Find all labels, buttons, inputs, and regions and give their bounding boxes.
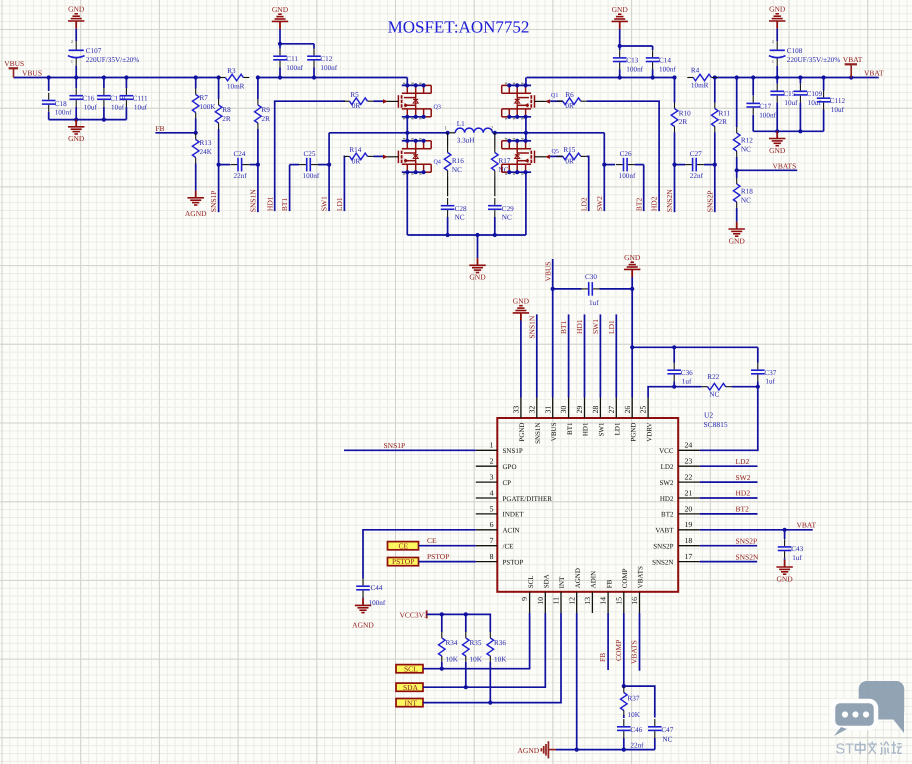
svg-text:10K: 10K [470, 655, 483, 663]
svg-text:SNS1P: SNS1P [503, 447, 523, 455]
wire pin28 SW1 [599, 314, 601, 397]
svg-text:2: 2 [490, 457, 494, 466]
svg-text:SDA: SDA [543, 574, 551, 588]
resistor R37 [621, 686, 641, 719]
svg-text:L1: L1 [457, 120, 465, 128]
wire VDRV rail [648, 387, 758, 398]
wire SDA net [423, 613, 545, 687]
capacitor C46 [617, 719, 644, 750]
svg-text:CE: CE [427, 536, 437, 545]
wire Q4 source down [406, 172, 408, 235]
svg-text:15: 15 [614, 597, 623, 605]
svg-text:C108: C108 [787, 47, 803, 55]
resistor R35 [463, 614, 483, 687]
wire VCC net [700, 387, 758, 451]
resistor R10 [671, 78, 691, 165]
inductor L1 [445, 120, 495, 144]
wire pin29 HD1 [584, 314, 586, 397]
wire pin27 LD1 [615, 314, 617, 397]
svg-text:BT1: BT1 [280, 198, 289, 212]
svg-text:LD1: LD1 [607, 320, 616, 334]
wire BT2 vertical [643, 165, 645, 212]
svg-text:10mR: 10mR [227, 83, 245, 91]
resistor R14 [344, 146, 374, 165]
svg-text:SNS2N: SNS2N [665, 189, 674, 213]
wire R15 to LD2 [587, 156, 589, 211]
wire LD2 stub [700, 465, 758, 467]
junction dots VCC3V3 rail [440, 612, 468, 616]
svg-text:AGND: AGND [574, 568, 582, 588]
resistor R9 [255, 78, 271, 165]
svg-text:HD2: HD2 [650, 196, 659, 211]
U2 designator [704, 411, 728, 429]
power GND above pin33 [513, 296, 530, 320]
svg-text:R15: R15 [563, 146, 575, 154]
wire R14 to Q4 gate [374, 155, 384, 157]
svg-text:VBUS: VBUS [543, 261, 552, 281]
wire SNS2P vertical [714, 165, 716, 213]
junction dot C13 top [618, 44, 622, 48]
svg-text:NC: NC [662, 736, 672, 744]
svg-text:C107: C107 [86, 47, 102, 55]
svg-text:22nf: 22nf [690, 172, 704, 180]
svg-text:7: 7 [490, 536, 494, 545]
svg-text:VBAT: VBAT [864, 69, 884, 78]
U2 bottom pins 9-16 [520, 566, 645, 613]
svg-text:100nf: 100nf [55, 109, 72, 117]
wire BT1 vertical [289, 165, 291, 212]
net label SNS2N pin17 [736, 552, 760, 561]
net label BT2 [634, 198, 643, 212]
capacitor C14 [646, 46, 677, 78]
net label BT1 [280, 198, 289, 212]
svg-text:8: 8 [490, 552, 494, 561]
net label COMP below IC [614, 640, 623, 661]
capacitor C30 [553, 273, 633, 307]
svg-text:10uf: 10uf [111, 103, 125, 111]
svg-text:COMP: COMP [614, 640, 623, 661]
net label SW1 above IC [591, 319, 600, 334]
resistor R18 [733, 170, 753, 222]
op-amp U2 body [497, 418, 678, 592]
svg-text:VBAT: VBAT [797, 520, 817, 529]
svg-text:100nf: 100nf [659, 65, 676, 73]
svg-text:C14: C14 [659, 56, 671, 64]
resistor R22 [702, 373, 732, 398]
svg-text:VBUS: VBUS [22, 69, 42, 78]
svg-text:SW1: SW1 [591, 319, 600, 334]
wire FB stub [155, 132, 195, 134]
svg-text:CE: CE [399, 541, 409, 550]
svg-text:SNS1P: SNS1P [384, 441, 406, 450]
svg-text:NC: NC [709, 390, 719, 398]
wire Q3 source to SW [406, 117, 408, 133]
svg-text:0R: 0R [352, 157, 361, 165]
svg-text:SW2: SW2 [660, 479, 675, 487]
svg-text:GND: GND [469, 273, 486, 282]
wire pin16 VBATS net [639, 613, 641, 671]
capacitor C109 [794, 78, 823, 132]
svg-text:R14: R14 [349, 146, 361, 154]
resistor R15 [550, 146, 587, 165]
wire pin15 COMP net [623, 613, 625, 686]
node VBAT junction [783, 528, 787, 532]
svg-text:0R: 0R [565, 102, 574, 110]
svg-text:SW1: SW1 [320, 196, 329, 211]
svg-text:10mR: 10mR [691, 82, 709, 90]
junction dots right cap rail [775, 129, 802, 133]
transistor Q4 [383, 138, 441, 175]
svg-text:PSTOP: PSTOP [503, 558, 524, 566]
svg-text:R11: R11 [719, 110, 731, 118]
wire pin32 SNS1N [536, 314, 538, 397]
transistor Q3 [383, 83, 441, 120]
capacitor C44 [356, 579, 386, 607]
resistor R4 [687, 66, 717, 89]
svg-text:R34: R34 [446, 639, 458, 647]
svg-text:CP: CP [503, 479, 512, 487]
svg-text:1uf: 1uf [682, 377, 692, 385]
wire Q5 source down [525, 172, 527, 235]
capacitor C112 [817, 78, 846, 132]
power GND above C11 [272, 5, 289, 29]
wire SNS2N stub [700, 561, 757, 563]
svg-text:2R: 2R [719, 118, 728, 126]
svg-text:10K: 10K [446, 655, 459, 663]
wire SNS1P to pin1 [344, 449, 476, 451]
svg-text:1uf: 1uf [765, 377, 775, 385]
transistor Q1 [502, 83, 559, 120]
wire bus to Q1 drain [525, 78, 527, 86]
wire SNS1P vertical [218, 165, 220, 213]
svg-text:C24: C24 [234, 150, 246, 158]
wire SW1 vertical [328, 133, 330, 211]
svg-text:18: 18 [685, 536, 693, 545]
svg-text:HD1: HD1 [575, 319, 584, 334]
svg-text:R5: R5 [350, 91, 359, 99]
svg-text:BT1: BT1 [566, 422, 574, 435]
svg-text:BT2: BT2 [661, 511, 674, 519]
net label LD2 [579, 197, 588, 211]
svg-text:220UF/35V/±20%: 220UF/35V/±20% [787, 56, 840, 64]
svg-text:19: 19 [685, 520, 693, 529]
svg-text:R9: R9 [262, 106, 271, 114]
wire Q1 source to SW [525, 117, 527, 133]
svg-text:20: 20 [685, 504, 693, 513]
svg-text:VBUS: VBUS [4, 59, 24, 68]
wire COMP to C47 rail [624, 686, 655, 717]
svg-text:3: 3 [490, 473, 494, 482]
resistor R7 [192, 78, 216, 133]
node SW1 C25 junction [327, 163, 331, 167]
wire R5 to Q3 gate [374, 100, 384, 102]
svg-text:LD2: LD2 [579, 197, 588, 211]
node VBATS junction [735, 168, 739, 172]
capacitor C25 [290, 150, 330, 180]
svg-text:30: 30 [559, 406, 568, 414]
port VBAT [843, 55, 863, 78]
capacitor C27 [675, 150, 715, 180]
svg-text:31: 31 [543, 406, 552, 414]
svg-text:5: 5 [490, 504, 494, 513]
svg-text:VDRV: VDRV [645, 423, 653, 442]
svg-text:GND: GND [68, 4, 85, 13]
svg-text:LD2: LD2 [661, 463, 674, 471]
wire GND to C107 [75, 29, 77, 50]
watermark logo [833, 681, 904, 736]
wire pin33 PGND [520, 321, 522, 398]
junction dots left rail [74, 118, 106, 122]
wire SW to Q4 drain [406, 133, 408, 141]
svg-text:SCL: SCL [404, 665, 418, 674]
svg-text:33: 33 [512, 406, 521, 414]
junction dots C30 [551, 287, 635, 291]
svg-text:C12: C12 [320, 55, 332, 63]
net label VBAT right [797, 520, 817, 529]
wire C36 C37 top rail [632, 346, 758, 348]
junction dots SW rail [405, 131, 528, 135]
power GND above C13 [612, 5, 629, 29]
junction dot C11 top [278, 42, 282, 46]
svg-text:MOSFET:AON7752: MOSFET:AON7752 [388, 17, 530, 36]
resistor R17 [492, 133, 511, 197]
svg-text:1: 1 [772, 59, 774, 64]
svg-text:Q4: Q4 [434, 160, 441, 166]
power AGND below C44 [352, 598, 374, 630]
wire pin26 PGND [631, 277, 633, 398]
net label LD1 [335, 197, 344, 211]
U2 top pins 33-25 [512, 398, 654, 444]
svg-text:U2: U2 [704, 411, 713, 420]
svg-text:VBUS: VBUS [550, 422, 558, 441]
svg-text:VBAT: VBAT [843, 55, 863, 64]
port CE [388, 541, 419, 550]
wire C44 to AGND [362, 597, 364, 600]
svg-text:VBATS: VBATS [630, 640, 639, 664]
svg-text:SNS2P: SNS2P [705, 191, 714, 213]
svg-text:17: 17 [685, 552, 693, 561]
svg-text:INT: INT [558, 576, 566, 588]
svg-text:AGND: AGND [518, 746, 540, 755]
capacitor C24 [219, 150, 258, 180]
port PSTOP [388, 557, 419, 566]
wire SNS1N vertical [257, 165, 259, 213]
svg-text:COMP: COMP [621, 568, 629, 588]
svg-text:ST: ST [836, 742, 855, 758]
svg-text:GND: GND [68, 134, 85, 143]
svg-text:GND: GND [612, 5, 629, 14]
resistor R12 [733, 78, 753, 171]
svg-text:VBATS: VBATS [637, 566, 645, 588]
svg-text:SNS2P: SNS2P [736, 536, 758, 545]
svg-text:1uf: 1uf [792, 554, 802, 562]
svg-text:24: 24 [685, 441, 693, 450]
power GND above C108 [769, 4, 786, 28]
capacitor C29 [488, 198, 514, 235]
wire pin31 VBUS [552, 259, 554, 398]
capacitor C17 [746, 78, 776, 132]
svg-text:C109: C109 [807, 90, 823, 98]
net label HD2 pin21 [736, 489, 751, 498]
svg-text:VBATS: VBATS [773, 161, 797, 170]
capacitor C28 [441, 198, 467, 235]
svg-text:100nf: 100nf [286, 64, 303, 72]
svg-text:6: 6 [490, 520, 494, 529]
svg-text:2R: 2R [222, 115, 231, 123]
net label CE [427, 536, 437, 545]
svg-text:13: 13 [583, 597, 592, 605]
svg-text:R4: R4 [691, 66, 700, 74]
svg-text:220UF/35V/±20%: 220UF/35V/±20% [86, 56, 139, 64]
wire SW2 vertical [603, 133, 605, 211]
node FB junction [194, 131, 198, 135]
power GND below R18 [729, 222, 746, 246]
wire SW to Q5 drain [525, 133, 527, 141]
svg-text:21: 21 [685, 488, 693, 497]
net label HD1 [265, 196, 274, 211]
wire SNS2N vertical [674, 165, 676, 213]
svg-text:SNS2N: SNS2N [736, 552, 760, 561]
junction dots bottom rail [446, 233, 497, 237]
node SCL R34 junction [440, 667, 444, 671]
node SDA R35 junction [464, 685, 468, 689]
svg-text:GND: GND [769, 146, 786, 155]
node SW2 C26 junction [602, 163, 606, 167]
svg-text:R16: R16 [452, 157, 464, 165]
net label SNS1N [249, 189, 258, 213]
net label LD1 above IC [607, 320, 616, 334]
wire bus to Q3 drain [406, 78, 408, 86]
wire VBAT bus right [527, 77, 879, 79]
svg-text:3.3uH: 3.3uH [457, 137, 475, 145]
svg-text:R12: R12 [741, 137, 753, 145]
svg-text:32: 32 [527, 406, 536, 414]
svg-text:C36: C36 [681, 369, 693, 377]
svg-text:C13: C13 [626, 56, 638, 64]
svg-text:Q1: Q1 [551, 93, 558, 99]
net label VBUS [22, 69, 42, 78]
svg-text:HD2: HD2 [736, 489, 751, 498]
svg-text:C16: C16 [82, 95, 94, 103]
svg-text:INDET: INDET [503, 511, 525, 519]
svg-text:NC: NC [455, 214, 465, 222]
svg-text:GND: GND [769, 4, 786, 13]
wire C11 C12 top rail [280, 29, 314, 44]
net label SNS1P pin1 [384, 441, 406, 450]
svg-text:SW2: SW2 [595, 196, 604, 211]
svg-text:SW2: SW2 [736, 473, 751, 482]
svg-text:9: 9 [520, 597, 529, 601]
svg-text:16: 16 [630, 597, 639, 605]
svg-text:C17: C17 [759, 103, 771, 111]
svg-text:C47: C47 [661, 726, 673, 734]
svg-text:GND: GND [513, 296, 530, 305]
net label FB below IC [598, 653, 607, 662]
net label FB [155, 124, 164, 133]
junction dot C37 bottom [756, 385, 760, 389]
svg-text:100K: 100K [200, 103, 217, 111]
wire pin14 FB net [607, 613, 609, 670]
svg-text:100nf: 100nf [619, 172, 636, 180]
capacitor C11 [273, 44, 303, 78]
junction dots C24 [217, 163, 261, 167]
svg-text:SDA: SDA [403, 683, 419, 692]
watermark text [836, 742, 902, 758]
capacitor C47 [648, 719, 674, 750]
net label LD2 pin23 [736, 457, 750, 466]
svg-text:ADIN: ADIN [590, 571, 598, 589]
port SCL [396, 665, 423, 674]
port INT [396, 698, 423, 707]
svg-text:11: 11 [552, 597, 561, 605]
svg-text:FB: FB [155, 124, 164, 133]
svg-text:10K: 10K [494, 655, 507, 663]
capacitor C110 [97, 78, 126, 120]
svg-text:FB: FB [605, 579, 613, 588]
svg-text:AGND: AGND [185, 209, 207, 218]
svg-text:NC: NC [452, 166, 462, 174]
resistor R13 [192, 133, 212, 191]
net label BT2 pin20 [736, 505, 750, 514]
svg-text:C43: C43 [791, 545, 803, 553]
resistor R6 [550, 91, 587, 110]
wire ACIN net [363, 530, 476, 579]
svg-text:C11: C11 [286, 55, 298, 63]
svg-text:GND: GND [729, 236, 746, 245]
svg-text:22: 22 [685, 473, 693, 482]
svg-text:27: 27 [607, 406, 616, 414]
svg-text:C25: C25 [304, 150, 316, 158]
svg-text:R7: R7 [200, 94, 209, 102]
svg-text:22nf: 22nf [234, 172, 248, 180]
net label SW1 [320, 196, 329, 211]
U2 left pins 1-8 [476, 441, 552, 567]
svg-text:100nf: 100nf [759, 111, 776, 119]
net label SNS2P [705, 191, 714, 213]
svg-text:C28: C28 [455, 205, 467, 213]
power AGND below R13 [185, 191, 207, 219]
svg-text:GND: GND [272, 5, 289, 14]
svg-text:2R: 2R [262, 115, 271, 123]
svg-text:PGATE/DITHER: PGATE/DITHER [503, 495, 553, 503]
svg-text:R8: R8 [222, 106, 231, 114]
svg-text:C111: C111 [133, 95, 148, 103]
svg-text:14: 14 [599, 597, 608, 605]
svg-text:C30: C30 [585, 273, 597, 281]
svg-text:LD1: LD1 [614, 422, 622, 435]
svg-text:R37: R37 [628, 695, 640, 703]
capacitor C12 [307, 44, 338, 78]
svg-text:VCC: VCC [659, 447, 674, 455]
wire pin12 AGND net [576, 613, 578, 750]
port SDA [396, 683, 423, 692]
svg-text:ACIN: ACIN [503, 527, 520, 535]
wire AGND bottom rail [556, 749, 655, 751]
net label VBAT top [864, 69, 884, 78]
svg-text:12: 12 [567, 597, 576, 605]
svg-text:0R: 0R [565, 157, 574, 165]
wire PSTOP to pin8 [419, 561, 476, 563]
svg-text:C27: C27 [690, 150, 702, 158]
svg-text:NC: NC [741, 197, 751, 205]
svg-text:10uf: 10uf [84, 103, 98, 111]
net label BT1 above IC [559, 320, 568, 334]
svg-text:2: 2 [772, 39, 774, 44]
svg-text:22nf: 22nf [630, 741, 644, 749]
svg-text:LD2: LD2 [736, 457, 750, 466]
node INT R36 junction [488, 701, 492, 705]
wire SCL net [423, 613, 530, 669]
